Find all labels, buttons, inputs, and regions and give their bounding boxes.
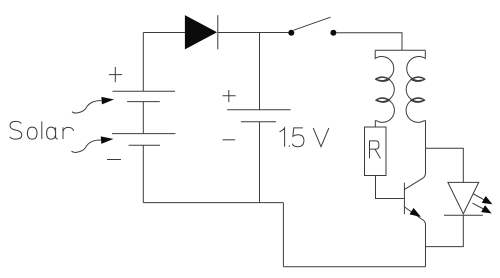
LED D2 cathode bar xyxy=(444,214,483,216)
wire bottom bus upper horizontal xyxy=(143,202,283,204)
wire LED cathode down and left to emitter node xyxy=(426,215,464,246)
wire diode cathode to switch xyxy=(218,32,289,34)
resistor R body xyxy=(365,127,387,176)
wire bottom bus vertical drop xyxy=(282,203,284,267)
resistor R label xyxy=(370,141,381,159)
solar cell battery plate long top (cell 1 +) xyxy=(112,90,175,92)
solar cell battery plate short bottom (cell 2 -) xyxy=(129,144,160,146)
wire solar cell minus down to bus xyxy=(142,145,144,202)
1.5V battery plus label xyxy=(223,90,236,102)
solar input squiggle arrow top xyxy=(72,101,102,113)
transformer T1 secondary winding (right) xyxy=(406,50,425,148)
switch S1 right contact dot xyxy=(330,30,336,36)
transistor Q1 emitter lead xyxy=(404,207,425,267)
LED D2 triangle xyxy=(448,182,479,214)
transformer T1 primary winding (left) xyxy=(375,50,394,127)
solar input squiggle arrow top head xyxy=(102,98,113,104)
solar cell plus label xyxy=(109,67,122,82)
transistor Q1 collector lead xyxy=(404,148,425,189)
switch S1 lever xyxy=(294,17,331,30)
switch S1 left contact dot xyxy=(288,30,294,36)
solar cell battery plate short (cell 1 -) xyxy=(127,101,160,103)
wire transformer/collector branch to LED anode xyxy=(426,148,464,182)
1.5V battery plate short (-) xyxy=(241,121,276,123)
LED D2 light arrow 1 xyxy=(474,194,492,204)
Solar text label xyxy=(10,121,74,139)
solar input squiggle arrow bottom head xyxy=(101,137,112,143)
1.5V battery value label xyxy=(280,128,329,147)
solar cell battery plate long (cell 2 +) xyxy=(112,133,175,135)
diode D1 triangle xyxy=(185,16,216,49)
node junction wire down to 1.5V battery plus xyxy=(259,33,261,110)
transistor Q1 emitter arrowhead xyxy=(410,209,419,216)
solar cell minus label xyxy=(107,159,121,161)
transistor Q1 base bar xyxy=(403,183,405,215)
wire top horizontal from corner to diode anode xyxy=(143,32,185,34)
1.5V battery minus label xyxy=(223,139,236,141)
wire 1.5V battery minus down to bus junction xyxy=(259,122,261,203)
LED D2 light arrow 2 xyxy=(473,203,491,213)
wire switch to transformer top xyxy=(336,33,402,51)
solar cell inter-cell wire xyxy=(142,102,144,134)
solar input squiggle arrow bottom xyxy=(72,140,102,152)
wire top-left vertical from corner down to solar battery xyxy=(142,33,144,92)
wire resistor bottom to transistor base xyxy=(376,176,404,199)
diode D1 cathode bar xyxy=(217,15,219,49)
transformer T1 top bar xyxy=(375,49,425,51)
wire bottom bus lower horizontal to emitter node xyxy=(283,266,425,268)
1.5V battery plate long (+) xyxy=(227,109,290,111)
